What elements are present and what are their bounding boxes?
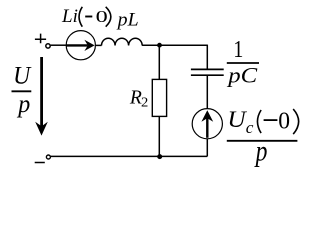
inductor pL (3 humps) bbox=[102, 38, 143, 45]
wire: bottom rail bbox=[51, 155, 208, 157]
label Li(-0): ( bbox=[79, 7, 82, 27]
label Uc(-0)/p fraction bar bbox=[227, 140, 298, 142]
label Uc(-0)/p fraction: minus bbox=[264, 119, 278, 121]
label U/p fraction bar bbox=[12, 90, 32, 92]
label 1/pC fraction bar bbox=[227, 62, 259, 64]
source U1 arrow (points right) bbox=[67, 44, 88, 46]
arrow: input voltage U/p (points down) bbox=[40, 57, 43, 129]
svg-text:U: U bbox=[227, 107, 247, 133]
svg-text:pC: pC bbox=[226, 62, 258, 87]
svg-text:1: 1 bbox=[233, 36, 243, 63]
source U2 circle (initial-condition source Uc(-0)/p) bbox=[192, 109, 222, 139]
source U2 arrow (points up) bbox=[206, 118, 208, 138]
source U1 circle (initial-condition source Li(-0)) bbox=[66, 31, 95, 60]
svg-text:U: U bbox=[13, 62, 32, 89]
label Li(-0): minus bbox=[85, 16, 92, 18]
svg-text:p: p bbox=[254, 135, 267, 168]
svg-text:0: 0 bbox=[96, 7, 108, 26]
svg-text:c: c bbox=[246, 118, 254, 137]
label Uc(-0)/p fraction: ( bbox=[257, 110, 261, 133]
capacitor 1/pC (two plates) bbox=[191, 68, 224, 70]
terminal node (bottom, -) bbox=[46, 155, 50, 159]
svg-text:0: 0 bbox=[278, 108, 290, 134]
terminal node (top, +) bbox=[46, 44, 50, 48]
wire: top-right corner down to capacitor bbox=[206, 45, 208, 69]
wire: resistor R2 to bottom wire bbox=[158, 116, 160, 156]
node: bottom junction dot bbox=[157, 154, 162, 159]
svg-text:pL: pL bbox=[116, 10, 139, 30]
minus terminal sign bbox=[35, 162, 45, 164]
node: top junction dot bbox=[157, 43, 162, 48]
plus terminal sign bbox=[35, 34, 46, 44]
label Uc(-0)/p fraction: ) bbox=[293, 109, 298, 134]
wire: source circle to inductor bbox=[96, 44, 102, 46]
wire: top terminal to source circle bbox=[51, 44, 67, 46]
svg-text:Li: Li bbox=[61, 6, 78, 27]
wire: source U2 to bottom wire bbox=[206, 139, 208, 157]
wire: inductor to top-right corner bbox=[142, 44, 207, 46]
resistor R2 bbox=[152, 79, 166, 116]
svg-text:p: p bbox=[16, 91, 30, 118]
label Li(-0): ) bbox=[106, 7, 111, 27]
wire: capacitor to source U2 bbox=[206, 76, 208, 109]
wire: top junction down to resistor R2 bbox=[158, 45, 160, 79]
svg-text:2: 2 bbox=[141, 94, 148, 109]
